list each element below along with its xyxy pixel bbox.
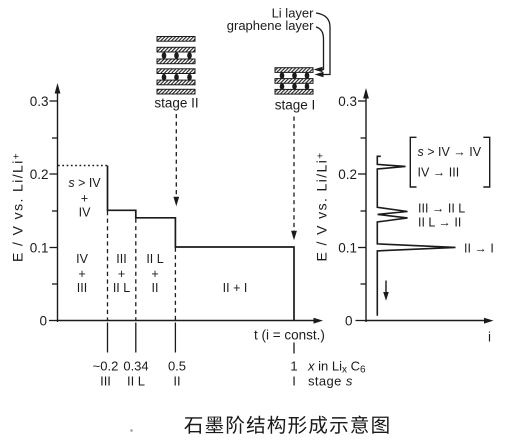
dashed divider x=0.5 below curve xyxy=(174,248,176,321)
svg-text:0.5: 0.5 xyxy=(168,359,186,374)
region label s>IV+IV xyxy=(68,176,101,220)
svg-text:stage II: stage II xyxy=(154,96,198,111)
svg-text:+: + xyxy=(118,267,125,281)
svg-text:0.1: 0.1 xyxy=(30,241,49,256)
svg-text:stage s: stage s xyxy=(308,374,353,389)
left y tick labels xyxy=(30,94,49,329)
small down arrow xyxy=(385,281,387,295)
right y-axis xyxy=(365,97,367,322)
svg-text:0.2: 0.2 xyxy=(338,167,357,182)
Li layer leader line xyxy=(316,13,330,75)
svg-text:+: + xyxy=(81,192,88,206)
svg-text:II L → II: II L → II xyxy=(418,216,461,230)
dashed divider x=0.34 xyxy=(135,219,137,321)
svg-text:~0.2: ~0.2 xyxy=(93,359,119,374)
graphene layer leader line xyxy=(316,27,324,70)
right x-axis arrowhead xyxy=(484,318,494,324)
svg-text:I: I xyxy=(292,374,296,389)
left x-axis arrowhead xyxy=(314,318,324,324)
tick below 0.34 xyxy=(135,323,137,353)
svg-text:s > IV: s > IV xyxy=(68,176,101,190)
x tick labels row1 xyxy=(93,359,298,374)
svg-text:IV → III: IV → III xyxy=(418,166,460,180)
stage I Li dots row 1 xyxy=(280,72,285,79)
stage I graphene bars xyxy=(275,68,313,73)
caption 石墨阶结构形成示意图 xyxy=(184,416,388,434)
svg-text:E / V vs. Li/Li+: E / V vs. Li/Li+ xyxy=(314,152,330,262)
tick below ~0.2 xyxy=(107,323,109,353)
svg-text:stage I: stage I xyxy=(275,98,316,113)
svg-text:0: 0 xyxy=(39,314,47,329)
svg-text:+: + xyxy=(151,267,158,281)
svg-text:IV: IV xyxy=(79,206,91,220)
stage II dashed arrow xyxy=(175,114,177,199)
right x-axis xyxy=(366,320,486,322)
left y-axis xyxy=(57,92,59,322)
left x-axis xyxy=(58,320,315,322)
left y-axis ticks xyxy=(49,101,58,321)
dotted plateau s>IV xyxy=(58,165,108,167)
svg-text:III: III xyxy=(77,281,87,295)
svg-text:II L: II L xyxy=(127,374,145,389)
svg-text:IV: IV xyxy=(76,252,88,266)
svg-text:II L: II L xyxy=(146,252,163,266)
tick below 0.5 xyxy=(174,323,176,353)
svg-text:i: i xyxy=(488,330,491,345)
svg-text:0.3: 0.3 xyxy=(338,94,357,109)
right y ticks xyxy=(356,101,367,321)
right y-axis arrowhead xyxy=(363,88,369,99)
right y tick labels xyxy=(338,94,357,329)
faint scan dot xyxy=(130,429,133,432)
svg-text:0.1: 0.1 xyxy=(338,241,357,256)
x tick labels row2 stages xyxy=(100,374,296,389)
stage II Li dots row 2 xyxy=(162,74,167,81)
svg-text:0.2: 0.2 xyxy=(30,167,49,182)
stage I Li dots row 2 xyxy=(280,83,285,90)
svg-text:0: 0 xyxy=(345,314,353,329)
stage II graphene bars xyxy=(157,37,195,42)
svg-text:s > IV → IV: s > IV → IV xyxy=(418,145,482,159)
svg-text:III → II L: III → II L xyxy=(418,202,465,216)
tick below 1 xyxy=(293,343,295,354)
svg-text:II + I: II + I xyxy=(223,281,248,295)
region label IIL+II xyxy=(146,252,163,295)
region label IV+III xyxy=(76,252,88,295)
svg-text:II → I: II → I xyxy=(464,242,494,256)
svg-text:0.3: 0.3 xyxy=(30,94,49,109)
dashed divider x=0.2 xyxy=(107,211,109,321)
svg-text:III: III xyxy=(116,252,126,266)
stage II Li dots row 1 xyxy=(162,52,167,59)
bracket right xyxy=(483,137,489,187)
svg-text:1: 1 xyxy=(290,359,297,374)
svg-text:II: II xyxy=(152,281,159,295)
left y-axis arrowhead xyxy=(55,83,61,94)
bracket left xyxy=(410,137,416,187)
stage I dashed arrow xyxy=(293,117,295,233)
svg-text:II L: II L xyxy=(113,281,130,295)
svg-text:E / V vs. Li/Li+: E / V vs. Li/Li+ xyxy=(10,152,26,262)
svg-text:+: + xyxy=(78,267,85,281)
main step curve xyxy=(108,166,295,321)
svg-text:t (i = const.): t (i = const.) xyxy=(254,328,325,343)
svg-text:III: III xyxy=(100,374,111,389)
svg-text:II: II xyxy=(173,374,180,389)
svg-text:0.34: 0.34 xyxy=(123,359,148,374)
current spike curve xyxy=(377,156,455,315)
region label III+IIL xyxy=(113,252,130,295)
svg-text:graphene layer: graphene layer xyxy=(227,18,314,33)
